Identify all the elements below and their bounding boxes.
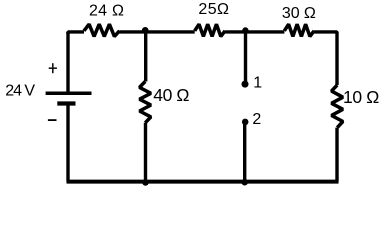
wire top between 24ohm and 25ohm — [120, 30, 195, 33]
svg-text:40 Ω: 40 Ω — [153, 85, 189, 105]
resistor R3 30 ohm zigzag — [284, 24, 314, 36]
wire switch branch upper (top rail to terminal 1) — [244, 32, 247, 82]
resistor R2 25 ohm zigzag — [195, 24, 225, 36]
wire top between 25ohm and 30ohm — [225, 30, 284, 33]
junction dot top at 40 ohm branch — [142, 27, 149, 34]
resistor R5 10 ohm zigzag — [332, 85, 343, 128]
wire left rail lower — [66, 105, 69, 182]
svg-text:24 V: 24 V — [5, 83, 35, 100]
junction dot top at switch branch — [242, 27, 248, 33]
wire middle branch upper (top rail to 40 ohm) — [144, 32, 147, 82]
svg-text:2: 2 — [252, 111, 261, 128]
junction dot bottom at switch branch — [241, 179, 248, 186]
wire middle branch lower (40 ohm to bottom rail) — [144, 123, 147, 182]
wire top-right corner segment — [314, 32, 337, 85]
label minus polarity — [48, 119, 57, 121]
wire right rail lower — [335, 128, 338, 182]
resistor R4 40 ohm zigzag — [140, 82, 151, 123]
resistor R1 24 ohm zigzag — [84, 24, 120, 36]
junction dot bottom at 40 ohm branch — [142, 179, 149, 186]
svg-text:24 Ω: 24 Ω — [89, 2, 124, 19]
svg-text:1: 1 — [253, 74, 262, 91]
battery V1 negative plate — [57, 101, 75, 105]
svg-text:25Ω: 25Ω — [198, 1, 229, 18]
wire bottom rail — [67, 180, 339, 184]
terminal node 1 dot — [242, 81, 249, 88]
wire switch branch lower (terminal 2 to bottom rail) — [243, 122, 246, 182]
label plus polarity — [49, 63, 57, 73]
svg-text:30 Ω: 30 Ω — [282, 5, 316, 22]
terminal node 2 dot — [242, 119, 249, 126]
wire left rail upper — [66, 32, 69, 92]
svg-text:10 Ω: 10 Ω — [343, 87, 379, 107]
battery V1 positive plate — [46, 92, 92, 96]
wire top-left corner segment — [68, 32, 84, 34]
